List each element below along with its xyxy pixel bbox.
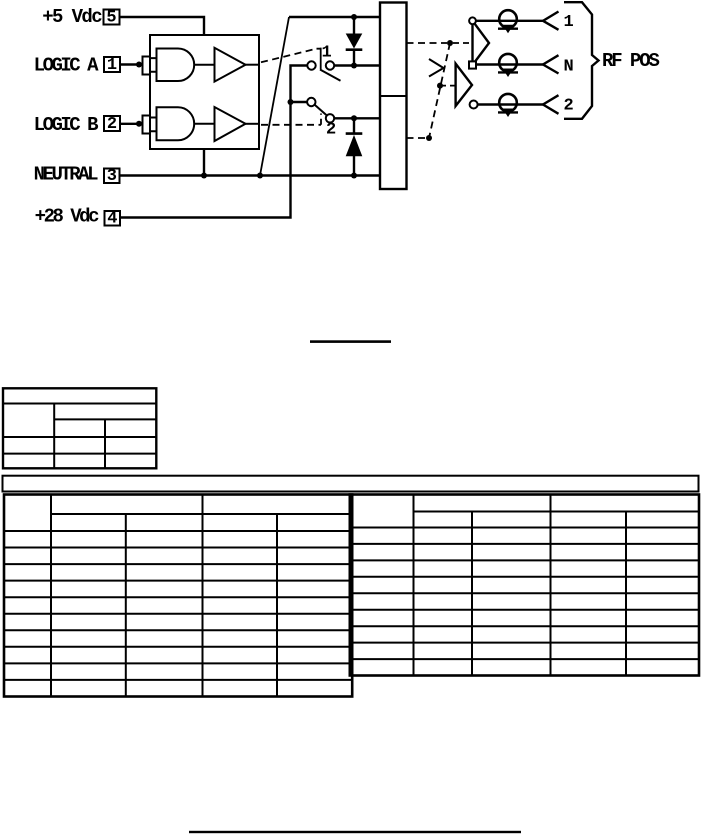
- RF feedthrough JN: [498, 54, 518, 77]
- junction dot neutral-IC: [201, 173, 207, 179]
- switch 2 upper contact: [307, 98, 315, 106]
- small table row line 2: [3, 453, 156, 455]
- right half col 1: [413, 495, 415, 676]
- svg-text:2: 2: [107, 115, 117, 134]
- svg-text:1: 1: [564, 13, 574, 32]
- left half header bottom: [51, 513, 352, 515]
- switch 1 arm (open): [320, 70, 341, 81]
- svg-text:1: 1: [107, 56, 117, 75]
- wire NEUTRAL bus: [120, 174, 381, 176]
- dashed linkage diagonal: [429, 43, 450, 138]
- linkage dot upper: [447, 40, 453, 46]
- junction dot neutral-linkage: [257, 173, 263, 179]
- switch 2 actuator stem dashed: [320, 114, 322, 125]
- junction dot top-CR1: [351, 14, 357, 20]
- linkage dot lower: [426, 135, 432, 141]
- junction dot A: [136, 62, 142, 68]
- right half col 3: [550, 495, 552, 676]
- junction dot +28V to switch2: [288, 99, 294, 105]
- switch 1 actuator stem: [317, 48, 321, 70]
- wire LOGIC B input: [120, 123, 143, 125]
- left half subheader bottom: [4, 530, 352, 532]
- big table left half: [4, 495, 352, 697]
- left half col 1: [50, 495, 52, 697]
- buffer B output wire: [246, 123, 260, 125]
- linkage dot middle: [437, 83, 443, 89]
- svg-text:N: N: [564, 58, 574, 77]
- right half col 2: [471, 512, 473, 676]
- terminal box 1: [104, 56, 120, 75]
- RF row 2 wire: [478, 103, 543, 105]
- RF feedthrough J1: [498, 10, 518, 33]
- IC box U1: [150, 35, 259, 149]
- dashed linkage to wiper1: [453, 42, 469, 44]
- right half header bottom: [414, 511, 700, 513]
- brace RF POS: [564, 2, 599, 119]
- right half outer: [350, 495, 699, 676]
- mechanical linkage line left: [260, 17, 289, 176]
- svg-text:2: 2: [326, 121, 336, 140]
- RF feedthrough J2: [498, 94, 518, 117]
- small table subheader line: [54, 418, 156, 420]
- junction dot sw1-CR1: [351, 63, 357, 69]
- switch 1 left contact: [307, 61, 315, 69]
- relay coil K1: [380, 3, 407, 190]
- gate A output wire: [194, 64, 214, 66]
- gate A input stubs: [150, 58, 157, 72]
- IC bottom pin wire: [203, 149, 205, 176]
- svg-text:LOGIC A: LOGIC A: [34, 55, 99, 77]
- buffer U1A: [215, 48, 246, 82]
- input pin block B: [143, 116, 151, 134]
- wire switch1 to relay: [334, 64, 380, 66]
- wire +28V riser: [120, 66, 307, 218]
- motion arrow: [429, 59, 444, 77]
- right half data row lines: [350, 544, 699, 659]
- switch 2 lower contact: [326, 114, 334, 122]
- junction dot sw2-CR2: [351, 115, 357, 121]
- junction dot B: [136, 121, 142, 127]
- wiper1 top contact circle: [469, 17, 476, 24]
- wire switch2 to relay: [334, 117, 380, 119]
- RF port N arrow: [543, 55, 559, 73]
- terminal box 2: [104, 115, 120, 134]
- RF row 1 wire: [476, 20, 543, 22]
- wire +5Vdc to IC pin 14: [120, 17, 205, 35]
- switch 1 right contact: [326, 61, 334, 69]
- figure title underline: [310, 340, 391, 343]
- svg-text:3: 3: [107, 167, 117, 186]
- junction dot neutral-CR2: [351, 173, 357, 179]
- RF row 2 contact circle: [470, 101, 478, 109]
- big table title band: [3, 476, 699, 492]
- buffer U1B: [215, 107, 246, 141]
- dashed drive line from buffer A: [261, 49, 317, 63]
- RF port 1 arrow: [543, 12, 559, 30]
- wire LOGIC A input: [120, 63, 143, 65]
- relay coil divider: [380, 95, 407, 97]
- left half col 3: [202, 495, 204, 697]
- svg-text:RF POS: RF POS: [602, 50, 660, 72]
- input pin block A: [143, 57, 151, 75]
- svg-text:5: 5: [106, 9, 116, 28]
- svg-text:+28 Vdc: +28 Vdc: [35, 206, 99, 228]
- small table: [3, 388, 156, 468]
- terminal box 3: [104, 167, 120, 186]
- RF port 2 arrow: [543, 95, 559, 114]
- right half subheader bottom: [350, 527, 699, 529]
- RF wiper 2: [456, 64, 472, 106]
- diode CR1: [346, 17, 363, 66]
- gate B output wire: [194, 123, 214, 125]
- svg-text:4: 4: [107, 210, 117, 229]
- switch 2 arm (closed): [315, 105, 327, 116]
- diode CR2: [346, 118, 363, 175]
- wire +28V tap to switch 2: [291, 101, 308, 103]
- left half col 4: [276, 514, 278, 697]
- svg-text:+5 Vdc: +5 Vdc: [42, 6, 102, 28]
- left half data row lines: [4, 548, 352, 680]
- RF row N wire: [476, 63, 543, 65]
- dashed linkage relay upper output: [407, 42, 448, 44]
- wire relay top feed: [289, 16, 380, 18]
- small table title row line: [3, 403, 156, 405]
- small table row line 1: [3, 436, 156, 438]
- small table outer border: [3, 388, 156, 468]
- svg-text:NEUTRAL: NEUTRAL: [34, 164, 98, 186]
- left half col 2: [125, 514, 127, 697]
- right half col 4: [625, 512, 627, 676]
- dashed linkage relay lower output: [407, 137, 430, 139]
- dashed linkage to wiper2: [440, 85, 455, 87]
- wiper1 bottom contact square: [469, 61, 476, 68]
- terminal box 5: [104, 9, 120, 28]
- small table col B divider: [104, 419, 106, 468]
- AND gate U1A: [157, 49, 195, 82]
- small table col A divider: [53, 404, 55, 469]
- terminal box 4: [105, 210, 121, 229]
- svg-text:2: 2: [564, 97, 574, 116]
- bottom rule: [189, 831, 521, 833]
- AND gate U1B: [157, 107, 195, 140]
- RF wiper 1: [473, 21, 490, 65]
- svg-text:LOGIC B: LOGIC B: [34, 114, 98, 136]
- left half outer: [4, 495, 352, 697]
- gate B input stubs: [150, 118, 157, 132]
- buffer A output wire: [246, 64, 260, 66]
- dashed drive line from buffer B: [261, 124, 321, 126]
- svg-text:1: 1: [322, 44, 332, 63]
- big table right half: [350, 495, 699, 676]
